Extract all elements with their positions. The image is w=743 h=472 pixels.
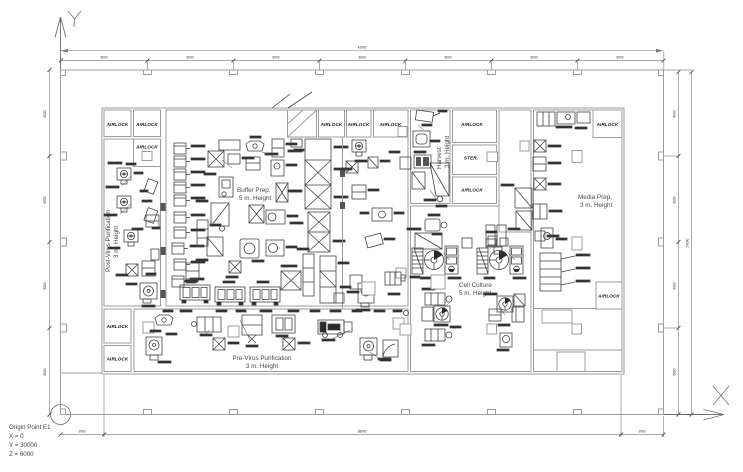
- svg-text:Media Prep.: Media Prep.: [578, 194, 612, 201]
- svg-text:6000: 6000: [672, 368, 676, 375]
- media prep lower partition: [534, 349, 623, 351]
- svg-text:6000: 6000: [444, 56, 451, 60]
- room airlock B3: [374, 110, 409, 137]
- svg-text:Harvest: Harvest: [436, 147, 443, 169]
- corridor door swing diagonals: [272, 92, 312, 108]
- bottom dimension line: [61, 434, 664, 436]
- svg-text:AIRLOCK: AIRLOCK: [106, 324, 129, 329]
- pre door square 5 on wall: [400, 324, 411, 335]
- cc cluster mid-left: [425, 293, 445, 305]
- bp xbox 1: [208, 151, 224, 167]
- pre xs pair: [213, 338, 225, 350]
- bp table: [219, 140, 240, 150]
- X axis letter: [713, 386, 729, 405]
- hv open frame: [412, 172, 425, 189]
- svg-text:2000: 2000: [78, 430, 85, 434]
- pv tilted machine 2: [144, 208, 158, 224]
- bp xbox 3: [249, 205, 264, 223]
- svg-text:AIRLOCK: AIRLOCK: [320, 122, 343, 127]
- svg-text:3 m. Height: 3 m. Height: [113, 226, 120, 258]
- svg-text:24000: 24000: [686, 238, 690, 247]
- X axis line: [61, 414, 725, 416]
- svg-text:Origin Point E1: Origin Point E1: [9, 424, 51, 431]
- top dimension line bays: [61, 60, 664, 62]
- hv top machine: [415, 110, 433, 122]
- bp boxes g2: [186, 263, 199, 279]
- bp xbox 2: [211, 203, 229, 226]
- cc cluster bottom-left: [425, 329, 445, 341]
- room airlock D2: [596, 282, 622, 309]
- bp xs pair: [346, 161, 358, 173]
- pre door square 3: [393, 318, 404, 329]
- building envelope: [102, 108, 624, 374]
- cc bioreactor 2: [477, 246, 523, 274]
- hv funnel: [430, 163, 449, 196]
- bp door machine: [219, 177, 233, 197]
- svg-text:6000: 6000: [672, 282, 676, 289]
- svg-text:X = 0: X = 0: [9, 433, 24, 440]
- cr tilted machine: [365, 233, 383, 248]
- room cell culture: [411, 206, 532, 372]
- room airlock A3: [134, 139, 161, 167]
- svg-text:2000: 2000: [638, 430, 645, 434]
- pre door square: [143, 322, 154, 333]
- pre machine 2: [242, 315, 262, 335]
- room media prep: [534, 110, 623, 372]
- svg-text:38000: 38000: [358, 430, 367, 434]
- bp side machine: [271, 160, 284, 176]
- svg-text:6000: 6000: [530, 56, 537, 60]
- bp circle machine 2: [266, 240, 284, 256]
- svg-text:AIRLOCK: AIRLOCK: [460, 188, 483, 193]
- shaft with diagonals: [288, 110, 317, 137]
- svg-text:6000: 6000: [43, 110, 47, 117]
- bp center tall rack: [305, 139, 331, 209]
- room airlock A2: [134, 110, 161, 137]
- building bottom wall to outer wall: [61, 372, 103, 374]
- corner brackets: [61, 70, 66, 76]
- svg-text:3 m. Height: 3 m. Height: [580, 202, 612, 209]
- bp hopper: [246, 141, 264, 151]
- room ster: [453, 145, 497, 175]
- pre door circle: [404, 311, 409, 316]
- room buffer prep: [166, 110, 408, 306]
- top dimension line overall: [61, 50, 663, 52]
- cc frame above bio1: [415, 233, 442, 249]
- Y axis letter: [68, 11, 81, 27]
- svg-text:STER.: STER.: [464, 156, 478, 161]
- bp machine g1: [207, 237, 223, 256]
- svg-text:AIRLOCK: AIRLOCK: [135, 122, 158, 127]
- svg-text:AIRLOCK: AIRLOCK: [460, 122, 483, 127]
- X axis arrowhead: [704, 410, 725, 421]
- pv mixer 4: [140, 283, 157, 299]
- room airlock A1: [104, 110, 131, 137]
- pre truck: [318, 320, 344, 334]
- svg-text:6000: 6000: [43, 368, 47, 375]
- pre label row on wall: [163, 310, 173, 312]
- room airlock A4: [104, 309, 131, 343]
- cr door square: [396, 268, 406, 278]
- pv label row: [108, 162, 122, 164]
- pv tilted machine 1: [144, 179, 158, 195]
- svg-text:6000: 6000: [186, 56, 193, 60]
- cc corridor door: [520, 141, 529, 151]
- corridor strip: [499, 110, 531, 232]
- bp small machine 2: [246, 157, 260, 170]
- svg-text:6000: 6000: [672, 110, 676, 117]
- cc small boxes near corridor: [488, 236, 497, 245]
- svg-text:AIRLOCK: AIRLOCK: [106, 357, 129, 362]
- svg-text:42000: 42000: [358, 46, 367, 50]
- svg-text:6000: 6000: [616, 56, 623, 60]
- cr machine pair: [372, 208, 392, 221]
- pre mixer right: [360, 338, 377, 355]
- door squares cell culture: [487, 324, 497, 334]
- svg-text:3 m. Height: 3 m. Height: [246, 363, 278, 370]
- wall center corridor: [342, 138, 344, 309]
- room post-virus purification: [104, 139, 161, 306]
- svg-text:AIRLOCK: AIRLOCK: [597, 294, 620, 299]
- cc bioreactor 1: [412, 246, 458, 274]
- bottom wall columns: [144, 410, 152, 415]
- room airlock C1: [453, 110, 497, 143]
- bp round machine: [240, 239, 259, 258]
- origin circle: [51, 405, 71, 425]
- svg-text:AIRLOCK: AIRLOCK: [135, 145, 158, 150]
- mp column machines: [534, 140, 546, 152]
- cc corridor xframes: [515, 188, 532, 208]
- room pre-virus purification: [134, 309, 408, 372]
- pv mixer 2: [117, 196, 131, 212]
- svg-text:AIRLOCK: AIRLOCK: [596, 122, 619, 127]
- svg-text:6000: 6000: [272, 56, 279, 60]
- bp x machine vertical: [276, 183, 288, 202]
- pre hopper cluster: [155, 315, 173, 325]
- bp press row: [281, 271, 301, 290]
- bp small box: [228, 154, 240, 164]
- right dimension line overall: [691, 72, 693, 415]
- svg-text:6000: 6000: [43, 282, 47, 289]
- pv mixer 3: [124, 230, 138, 246]
- svg-text:AIRLOCK: AIRLOCK: [347, 122, 370, 127]
- bp tall box: [272, 139, 284, 157]
- room airlock B2: [347, 110, 372, 137]
- bp small box top: [291, 139, 302, 147]
- cell culture stair room wall: [534, 285, 597, 310]
- Y axis arrowhead: [55, 17, 66, 38]
- svg-text:AIRLOCK: AIRLOCK: [106, 122, 129, 127]
- svg-text:Post-Virus Purification: Post-Virus Purification: [105, 210, 112, 272]
- room harvest: [411, 110, 451, 204]
- svg-text:6000: 6000: [43, 196, 47, 203]
- leader lines texture: [120, 125, 515, 359]
- right dimension connector at top: [664, 51, 692, 70]
- svg-text:6000: 6000: [100, 56, 107, 60]
- pre door square 2: [228, 326, 239, 337]
- pv box: [146, 215, 159, 227]
- svg-text:Pre-Virus Purification: Pre-Virus Purification: [232, 355, 292, 362]
- pv mixer 1: [117, 168, 131, 184]
- bp rack stack 2: [174, 212, 190, 223]
- room airlock C2: [453, 177, 497, 204]
- pre arc machine: [383, 340, 398, 357]
- cc cluster mid-right: [484, 293, 497, 295]
- cc door square upper: [431, 275, 445, 289]
- room airlock A5: [104, 346, 131, 372]
- svg-text:Cell Culture: Cell Culture: [459, 282, 492, 289]
- top wall column hangers: [144, 70, 582, 75]
- right wall columns: [659, 152, 664, 160]
- cc machine row upper left: [428, 214, 440, 216]
- bp x tower mid: [308, 212, 330, 252]
- room airlock B1: [319, 110, 345, 137]
- svg-text:Buffer Prep.: Buffer Prep.: [237, 187, 271, 194]
- bp mixer below airlock: [352, 140, 366, 156]
- Y axis line: [60, 17, 62, 415]
- pv wall ticks: [161, 203, 166, 211]
- mp vertical machine: [541, 228, 553, 248]
- right dimension line bays: [677, 72, 679, 415]
- outer wall rectangle: [61, 70, 664, 415]
- pre door square 4: [362, 282, 375, 295]
- pv small boxes: [126, 264, 138, 276]
- left dimension line: [49, 70, 51, 415]
- svg-text:Z = 6000: Z = 6000: [9, 451, 34, 458]
- svg-text:Y = 30000: Y = 30000: [9, 442, 38, 449]
- mp top row: [537, 112, 555, 126]
- cc pair above bio2: [486, 225, 495, 246]
- hv box machine: [413, 131, 430, 147]
- svg-text:5 m. Height: 5 m. Height: [239, 195, 271, 202]
- cc bottom circle machine: [500, 333, 512, 347]
- cr machine low: [350, 275, 362, 289]
- pre machine 1: [197, 317, 221, 332]
- bp rack stack 1: [174, 143, 190, 154]
- left wall columns: [61, 152, 67, 160]
- bp circle machine: [266, 210, 285, 224]
- hv roller: [414, 155, 431, 168]
- svg-text:6000: 6000: [672, 196, 676, 203]
- room airlock D1: [593, 110, 622, 138]
- pre mixer left: [146, 337, 162, 355]
- bp tall machine: [197, 220, 208, 246]
- pre machine 3: [272, 315, 295, 333]
- svg-text:6000: 6000: [358, 56, 365, 60]
- cr machine small: [352, 185, 366, 199]
- bp wall box: [400, 157, 411, 169]
- bp xs: [229, 261, 241, 273]
- mp stairs: [540, 253, 561, 291]
